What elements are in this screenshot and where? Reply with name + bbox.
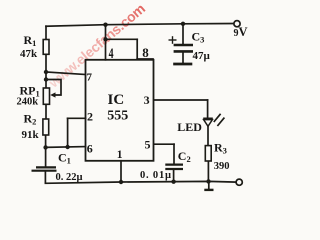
ground bar below rail <box>204 189 213 191</box>
wire: R1 bottom lead <box>45 54 47 72</box>
node: R2/C1/pin6 junction <box>43 145 47 149</box>
ground bar below C3 <box>173 63 192 66</box>
node: R1/RP1/pin7 junction <box>44 70 48 74</box>
resistor R1 body <box>43 40 49 55</box>
wire: pin 8 branch vertical into IC top <box>136 39 138 59</box>
LED D1: cathode bar <box>203 117 213 119</box>
node: C2 on bottom rail <box>171 180 175 184</box>
wire: top supply rail <box>46 24 234 27</box>
wire: C3 bottom lead <box>182 53 184 63</box>
node: pin1 on bottom rail <box>119 180 123 184</box>
svg-text:0. 01µ: 0. 01µ <box>140 170 172 181</box>
svg-text:6: 6 <box>87 141 93 155</box>
node: pin2 link junction <box>65 145 69 149</box>
wire: C2 top lead <box>173 144 175 163</box>
wire: C3 top lead from rail <box>182 24 184 44</box>
wire: pin 2 horizontal into IC <box>68 117 86 119</box>
wire: R1 top lead from rail <box>45 26 47 39</box>
capacitor C2 plates <box>165 165 183 169</box>
wire: pin 1 vertical to bottom rail <box>120 161 122 183</box>
LED D1: light arrows <box>214 114 225 126</box>
svg-text:390: 390 <box>214 161 230 172</box>
wire: pin 3 output horizontal <box>154 99 208 101</box>
watermark www.elecfans.com <box>45 0 148 91</box>
paper background <box>0 0 276 206</box>
wire: LED to R3 lead <box>207 126 209 145</box>
wire: R2 bottom lead <box>45 135 47 147</box>
wire: C1 top lead <box>45 147 47 166</box>
wire: bottom ground rail <box>45 181 236 183</box>
wire: pin 8 jog along box top <box>137 58 153 60</box>
wire: pin 4 vertical from rail into IC top <box>105 25 107 60</box>
wire: RP1 wiper loop <box>46 80 61 96</box>
wire: C1 bottom lead <box>44 172 46 183</box>
svg-text:2: 2 <box>87 110 93 124</box>
wire: RP1 top lead <box>45 72 47 88</box>
svg-text:LED: LED <box>177 120 202 134</box>
wire: pin 6 from R2/C1 node to IC <box>46 146 86 149</box>
node: rail/pin4 junction <box>103 23 107 27</box>
wire: pin 8 branch horizontal <box>106 38 138 40</box>
capacitor C3 plates <box>174 45 193 51</box>
node: rail/C3 junction <box>181 22 185 26</box>
wire: pin 7 from R1/RP1 node to IC <box>46 72 86 75</box>
wire: C2 bottom lead <box>173 170 175 183</box>
potentiometer RP1 body <box>43 88 49 104</box>
svg-text:3: 3 <box>144 93 150 107</box>
svg-text:IC: IC <box>108 92 125 108</box>
svg-text:7: 7 <box>87 72 93 84</box>
wire: RP1 to R2 lead <box>45 104 47 119</box>
node: pin4/pin8 branch junction <box>103 37 107 41</box>
wire: R3 bottom lead to rail <box>207 161 209 182</box>
IC U1 555 timer box <box>86 60 154 161</box>
resistor R2 body <box>43 119 49 135</box>
svg-text:47k: 47k <box>20 48 38 60</box>
pin 4 label <box>109 45 114 62</box>
wire: ground stub below rail <box>208 182 210 189</box>
terminal: bottom open circle <box>236 179 242 185</box>
svg-text:8: 8 <box>142 45 149 60</box>
svg-text:91k: 91k <box>22 129 40 141</box>
node: wiper junction <box>44 77 48 81</box>
wire: pin 2 vertical link <box>67 118 69 147</box>
svg-text:1: 1 <box>117 149 123 161</box>
terminal: +9V open circle <box>234 21 240 27</box>
potentiometer RP1 wiper arrowhead <box>50 92 55 97</box>
svg-text:5: 5 <box>145 137 151 151</box>
svg-text:4: 4 <box>109 45 114 62</box>
svg-text:0. 22µ: 0. 22µ <box>56 172 83 183</box>
svg-text:9V: 9V <box>234 25 248 39</box>
LED D1: triangle <box>204 120 213 127</box>
capacitor C3 polarity + <box>169 36 177 44</box>
capacitor C1 plates <box>32 167 57 170</box>
wire: pin 3 vertical down to LED <box>207 100 209 118</box>
resistor R3 body <box>205 146 211 161</box>
svg-text:47µ: 47µ <box>193 50 211 62</box>
svg-text:240k: 240k <box>17 97 39 108</box>
node: R3/ground on bottom rail <box>206 179 210 183</box>
svg-text:555: 555 <box>107 109 128 124</box>
wire: pin 5 horizontal to C2 <box>154 143 174 145</box>
